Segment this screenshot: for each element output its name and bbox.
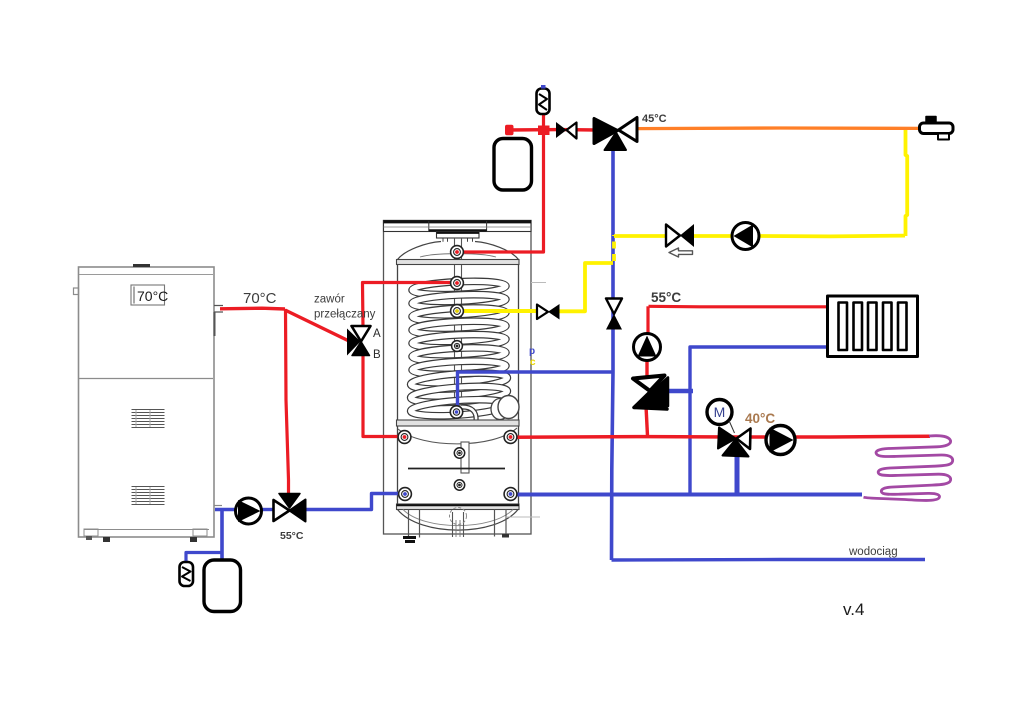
svg-text:70°C: 70°C: [243, 290, 277, 307]
center bracket: [461, 442, 469, 473]
boiler bottom right stub: [214, 505, 222, 507]
port bottom-left (blue): [399, 488, 412, 501]
wire red cross junction blob: [538, 126, 550, 136]
wire red 40C main horizontal: [511, 436, 930, 437]
switch valve zawor przelaczany: [347, 329, 361, 356]
port bottom-right (blue): [504, 488, 517, 501]
boiler right supply stub: [214, 306, 223, 313]
svg-text:45°C: 45°C: [642, 113, 667, 125]
wire yellow riser to roof: [906, 129, 908, 237]
bottom dish: [398, 510, 519, 531]
boiler top dark dash: [133, 264, 150, 267]
fan coil top right: [920, 123, 954, 134]
svg-text:c: c: [530, 357, 536, 368]
radiator: [828, 296, 918, 357]
tank feet: [403, 536, 416, 539]
tank lower band: [397, 504, 520, 510]
port sensor mid: [452, 341, 463, 352]
wire yellow tank to DHW valve: [458, 309, 539, 313]
3-way valve 55C boiler return: [274, 500, 290, 521]
boiler display box: [131, 285, 165, 305]
port mid-right (red): [504, 431, 517, 444]
wire red boiler supply out: [220, 307, 285, 311]
wire yellow dashes over blue: [612, 235, 616, 261]
wire blue boiler return segments: [215, 508, 236, 511]
svg-text:A: A: [373, 328, 381, 340]
pump radiator circuit: [634, 334, 661, 361]
wire orange 45C supply: [637, 126, 920, 130]
air separator bottom: [180, 562, 194, 586]
svg-text:55°C: 55°C: [280, 530, 304, 542]
pump yellow circulation: [732, 223, 759, 250]
leader lines: [531, 282, 546, 284]
wire red switch valve B to tank: [363, 354, 404, 437]
sight glass flange: [491, 399, 509, 420]
shutoff valve top red line: [556, 122, 567, 138]
svg-text:v.4: v.4: [843, 600, 864, 619]
wire purple floor loop: [864, 436, 953, 501]
wire blue motor valve drop: [735, 455, 740, 494]
shutoff valve yellow line: [666, 225, 680, 247]
3-way motor valve 40C: [718, 428, 736, 449]
svg-text:wodociąg: wodociąg: [848, 546, 898, 558]
port sensor lower a: [454, 448, 464, 458]
svg-text:M: M: [714, 404, 726, 420]
svg-text:B: B: [373, 349, 381, 361]
boiler body: [79, 267, 215, 537]
boiler bottom line: [84, 529, 209, 531]
port DHW (yellow): [451, 305, 464, 318]
tank upper weld seam: [397, 260, 520, 265]
wire blue main vertical from 45C valve down to wodociag: [612, 143, 614, 560]
wire blue mixing valve stub: [669, 389, 693, 393]
wire yellow circulation horizontal: [614, 234, 666, 238]
wire blue tank middle to main vertical: [458, 372, 614, 412]
wire red top vertical to tank: [460, 114, 544, 252]
wire red diagonal to switch valve: [285, 310, 351, 342]
tank side walls: [397, 265, 399, 421]
port mid-left (red): [398, 431, 411, 444]
wire red drop to 55C valve: [286, 309, 289, 497]
tank center tube: [454, 238, 456, 412]
motor actuator M: [707, 400, 732, 425]
port tank top (red): [451, 246, 464, 259]
port coil bottom (blue): [450, 406, 462, 418]
heat exchanger coil: [410, 280, 508, 419]
port sensor lower b: [454, 480, 464, 490]
svg-text:przełączany: przełączany: [314, 309, 376, 321]
boiler vent grille lower: [132, 487, 165, 505]
svg-text:70°C: 70°C: [137, 288, 168, 304]
tank dome shoulders: [398, 242, 442, 260]
boiler left tab: [74, 288, 79, 295]
port tank upper (red): [451, 277, 464, 290]
wire red switch valve A to tank top: [363, 283, 459, 329]
3-way mixing valve 45C: [594, 119, 618, 144]
3-way mixing valve radiators: [634, 392, 667, 410]
wire blue wodociag horizontal: [612, 558, 926, 562]
wire blue radiator return: [690, 347, 828, 494]
wire yellow valve to riser: [558, 263, 613, 311]
svg-text:55°C: 55°C: [651, 290, 681, 305]
tank outer frame: [384, 221, 532, 535]
boiler feet: [84, 529, 98, 536]
air vent top: [537, 89, 550, 115]
wire blue expansion drop: [220, 510, 224, 560]
tank lower walls: [397, 426, 399, 504]
coil outlet elbow: [461, 407, 476, 421]
flow arrow outline: [669, 248, 693, 257]
lower dark line: [408, 468, 505, 470]
anode tube: [452, 512, 454, 537]
wire red pump to mix valve stub: [645, 359, 648, 378]
pump floor circuit: [766, 426, 795, 455]
tank mid band: [397, 420, 520, 426]
expansion tank bottom: [204, 560, 241, 612]
boiler mid divider: [79, 378, 213, 380]
boiler vent grille upper: [132, 410, 165, 428]
tank top cap: [437, 232, 480, 239]
shutoff valve DHW outlet: [537, 305, 548, 320]
expansion vessel top: [494, 139, 532, 191]
check valve blue riser: [606, 299, 622, 315]
wire red top header: [508, 128, 596, 132]
wire red top header end cap: [505, 125, 514, 136]
pump boiler circuit: [236, 498, 262, 524]
svg-text:zawór: zawór: [314, 294, 345, 306]
tank lid band: [384, 221, 532, 232]
wire blue bottom horizontal return: [511, 493, 862, 497]
svg-text:p: p: [529, 346, 535, 357]
wire red 55C radiator flow: [649, 305, 829, 309]
wire red mix valve to 40C line: [646, 406, 648, 436]
svg-text:40°C: 40°C: [745, 411, 775, 426]
tank legs: [409, 510, 507, 538]
boiler top band line: [79, 274, 213, 276]
lower dish arc: [398, 428, 517, 444]
